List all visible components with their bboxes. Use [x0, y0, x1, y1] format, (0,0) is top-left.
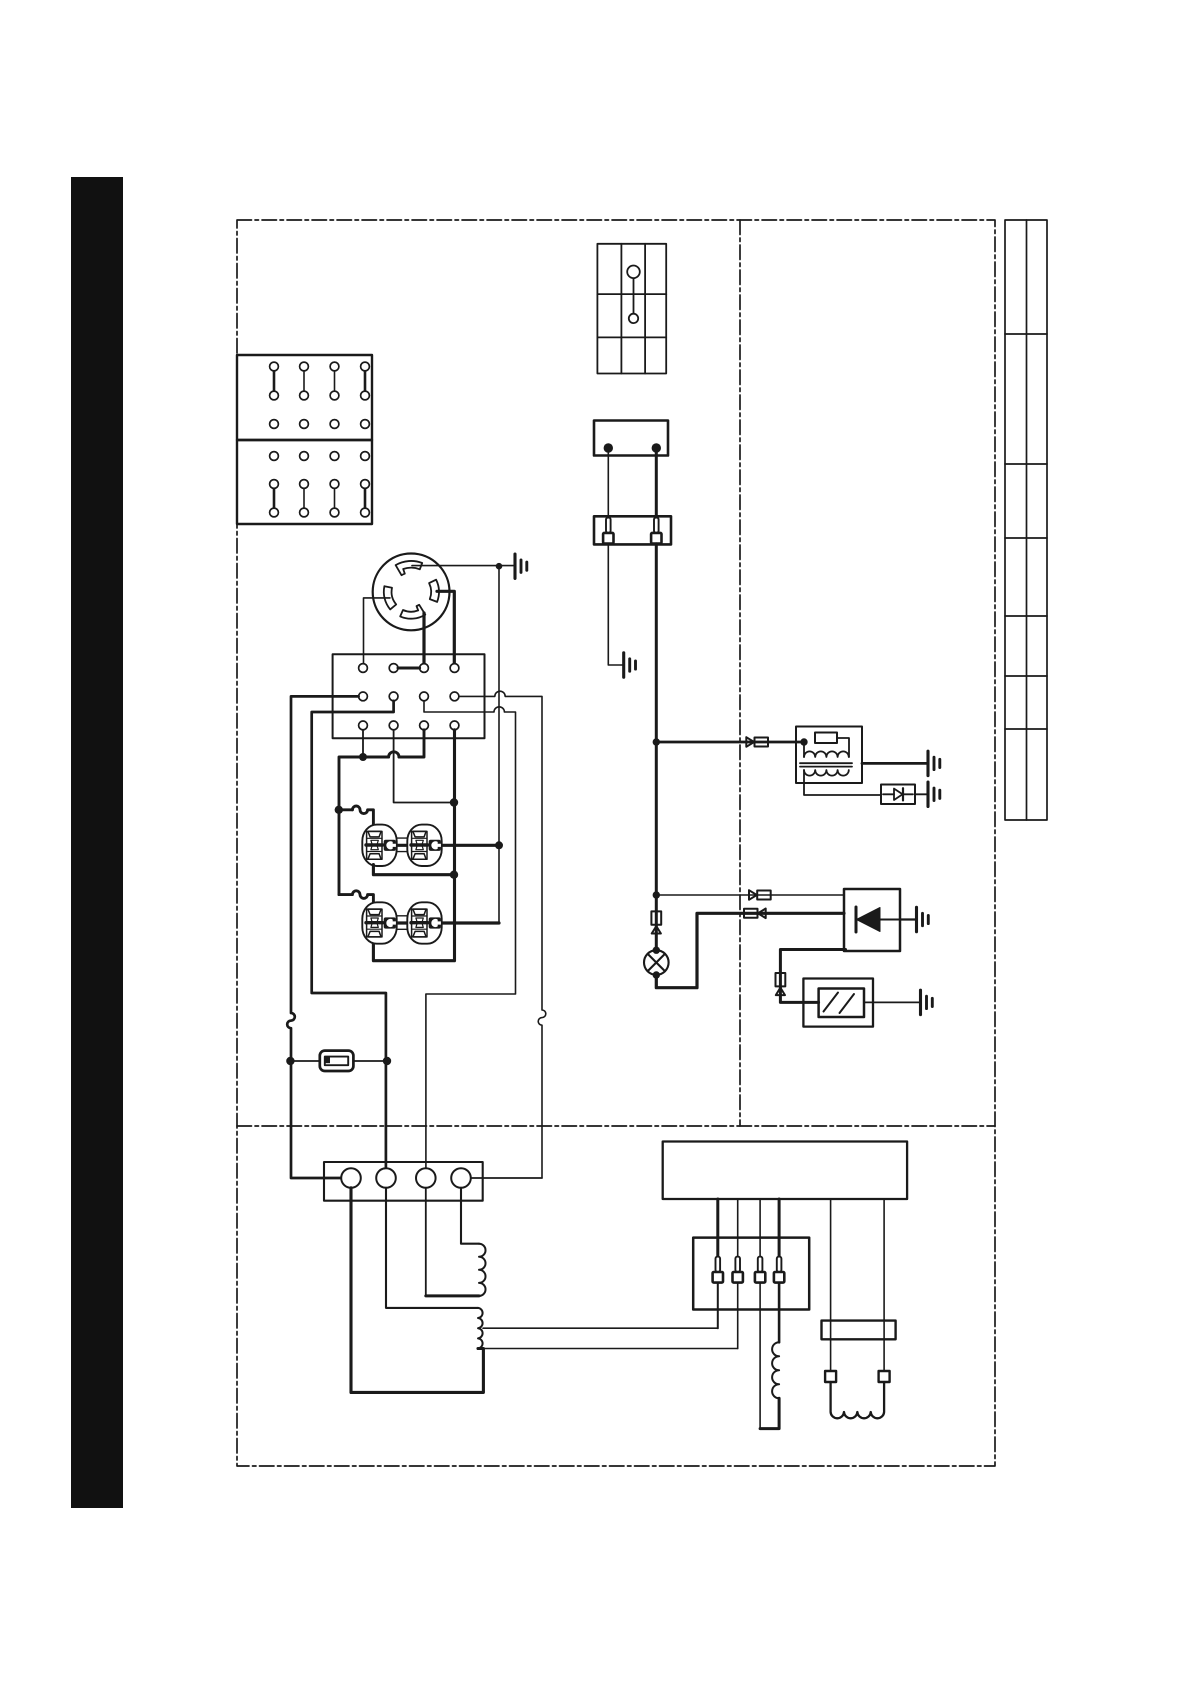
wire row3col4 down [373, 730, 454, 961]
main harness wire (fuse to lamp) [655, 544, 658, 951]
ground G6 [921, 990, 933, 1014]
receptacle 2 right outlet [407, 902, 441, 943]
rectifier [844, 889, 900, 951]
ignition coil [796, 727, 881, 796]
sender square left [825, 1371, 836, 1382]
resistor box [822, 1321, 896, 1340]
ground G1 [515, 554, 527, 578]
pin1 tail [717, 1283, 719, 1328]
wire row2col4 down [459, 691, 546, 1178]
wire row3col3 bus [339, 730, 424, 895]
ground G5 [917, 907, 929, 931]
wire row2col3 down [424, 701, 516, 1169]
pin 4 [774, 1257, 784, 1283]
connector block CN6 [693, 1238, 809, 1310]
fuse box [594, 516, 671, 544]
receptacle 1 bottom wire [373, 865, 454, 875]
pin2 tail [737, 1283, 739, 1349]
wire fuse left to ground [608, 544, 622, 665]
section divider horizontal [237, 1125, 995, 1127]
wire rectifier to ground [900, 918, 915, 920]
wire unit to pin1 [716, 1199, 719, 1257]
DC source box [594, 421, 668, 456]
control unit box [663, 1142, 907, 1200]
wire regulator to ground [864, 1001, 919, 1003]
black side tab [71, 177, 123, 1508]
wire to rectifier [656, 894, 844, 896]
pilot lamp [644, 950, 669, 975]
wire TB2-3 to sub winding [425, 1188, 427, 1295]
wire TB2-4 to sub winding [461, 1188, 479, 1244]
wire plug to ground [915, 793, 927, 795]
wire unit to sender [830, 1199, 832, 1371]
wire battery right to fuse [655, 448, 658, 519]
section divider vertical [739, 220, 741, 1126]
terminal block TB1 [333, 654, 485, 738]
spark plug [881, 785, 915, 805]
wire row3col2 down [394, 730, 450, 803]
neutral net vertical [460, 566, 499, 923]
wire TB2-4 right riser [471, 1177, 542, 1179]
receptacle 2 left outlet [362, 902, 396, 943]
connector pair CN5 [776, 973, 786, 995]
voltage regulator [803, 979, 873, 1027]
receptacle 1 right outlet [407, 825, 441, 866]
ground G3 [928, 751, 940, 775]
connector pair CN2 [749, 890, 771, 900]
connector pair CN1 [746, 737, 768, 747]
twist-lock receptacle [373, 554, 450, 631]
wire row2col1 to breaker net [287, 696, 358, 1178]
sub winding W1 [479, 1244, 486, 1296]
wire coil to ground [862, 762, 927, 765]
wire TB2-1 to main winding end [349, 1188, 352, 1393]
fuse pin left [603, 518, 613, 544]
wire row3col1 down [362, 730, 364, 757]
wire receptacle top slot to ground node [412, 565, 514, 567]
duplex receptacle 1 buses [375, 838, 429, 852]
circuit breaker [320, 1051, 354, 1071]
frame border [237, 220, 995, 1466]
winding tap 2 [483, 1348, 737, 1350]
jumper row1 col2-col3 [398, 667, 420, 670]
breaker wires [291, 1060, 320, 1062]
wire to ignition coil [656, 741, 804, 744]
voltage selector block [237, 355, 372, 524]
wire receptacle right slot [437, 591, 454, 663]
pin3 tail [759, 1283, 761, 1429]
main winding W2 [478, 1308, 483, 1349]
wire rectifier to regulator [780, 950, 845, 1003]
pin 1 [713, 1257, 723, 1283]
wire receptacle bottom slot [422, 613, 425, 664]
receptacle 1 left outlet [362, 825, 396, 866]
branch to receptacle 1 top [352, 806, 373, 826]
branch to receptacle 2 top [339, 891, 373, 904]
exciter winding W3 [778, 1283, 781, 1342]
ground G4 [928, 782, 940, 806]
pin 2 [733, 1257, 743, 1283]
wire unit to pin2 [737, 1199, 739, 1257]
engine switch [597, 244, 666, 374]
pin 3 [755, 1257, 765, 1283]
wire unit to pin4 [778, 1199, 781, 1257]
terminal block TB2 [324, 1162, 483, 1201]
wire unit to pin3 [759, 1199, 761, 1257]
duplex receptacle 2 buses [375, 916, 429, 930]
sender winding W4 [831, 1382, 885, 1418]
spec table [1005, 220, 1047, 820]
ground G2 [624, 653, 636, 677]
fuse pin right [651, 518, 661, 544]
sender square right [879, 1371, 890, 1382]
connector pair CN4 [744, 909, 766, 919]
wire TB2-2 to main winding [386, 1188, 478, 1308]
wire receptacle left slot [364, 598, 391, 664]
winding tap 1 [483, 1327, 718, 1329]
wire battery left to fuse [607, 448, 609, 519]
wire lamp return [656, 913, 844, 987]
connector pair CN3 [651, 911, 661, 933]
wire row2col2 down [312, 701, 394, 1169]
